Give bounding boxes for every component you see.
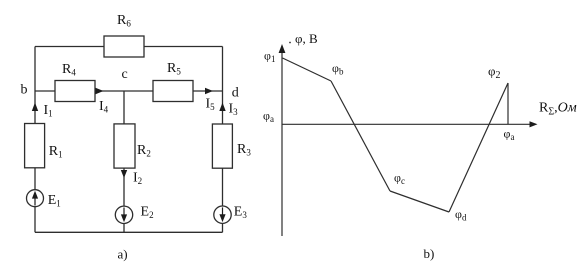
wire E1 to bottom rail	[34, 207, 36, 233]
svg-text:R4: R4	[62, 62, 76, 78]
source E1 circle	[27, 190, 44, 207]
svg-text:b: b	[21, 83, 28, 98]
resistor R3 body	[212, 124, 232, 168]
wire R5 to node d	[193, 90, 223, 92]
arrow I2 head (down, below R2)	[121, 170, 127, 178]
resistor R1 body	[25, 124, 45, 168]
svg-text:I4: I4	[99, 99, 109, 115]
svg-text:φa: φa	[263, 109, 274, 125]
wire right vertical top (top rail down to d)	[222, 47, 224, 92]
svg-text:R5: R5	[167, 61, 181, 77]
arrow I3 head (up, on right branch)	[219, 103, 225, 112]
svg-text:d: d	[232, 86, 239, 101]
svg-text:φb: φb	[332, 61, 344, 77]
svg-text:E1: E1	[48, 193, 61, 209]
svg-text:I1: I1	[44, 103, 53, 119]
svg-text:I3: I3	[229, 102, 239, 118]
wire R2 to E2	[123, 168, 125, 206]
wire R1 to E1	[34, 168, 36, 190]
wire node d down to R3	[222, 91, 224, 124]
svg-text:R1: R1	[49, 144, 63, 160]
wire E2 to bottom rail	[123, 224, 125, 233]
wire b to R4	[35, 90, 55, 92]
wire node c down to R2	[123, 91, 125, 124]
curve segment phid to phi2	[449, 83, 508, 212]
wire b down to R1	[34, 91, 36, 124]
svg-text:φ, B: φ, B	[295, 31, 318, 46]
svg-text:b): b)	[424, 246, 435, 261]
curve segment phic to phid	[390, 191, 449, 212]
wire E3 to bottom rail	[222, 223, 224, 232]
curve segment phi2 down to axis (phia)	[507, 83, 509, 124]
resistor R5 body	[153, 81, 193, 102]
svg-text:c: c	[122, 67, 128, 82]
source E3 arrow (down inside circle)	[219, 214, 225, 222]
svg-text:φd: φd	[455, 207, 467, 223]
horizontal axis arrowhead	[530, 121, 538, 127]
curve segment phib to phic	[331, 81, 390, 191]
potential diagram horizontal axis	[282, 123, 531, 125]
svg-text:R6: R6	[117, 13, 131, 29]
wire top rail left of R6	[35, 46, 104, 48]
svg-text:R3: R3	[237, 142, 251, 158]
svg-text:R2: R2	[137, 143, 151, 159]
svg-text:E2: E2	[141, 205, 154, 221]
wire left vertical top (b up to top rail)	[34, 47, 36, 92]
svg-text:a): a)	[118, 247, 128, 262]
source E1 arrow (up inside circle)	[32, 191, 38, 199]
potential diagram vertical axis	[281, 52, 283, 236]
wire top rail right of R6	[144, 46, 223, 48]
source E2 arrow (down inside circle)	[121, 214, 127, 222]
resistor R4 body	[55, 81, 95, 102]
svg-text:RΣ,Ом: RΣ,Ом	[539, 101, 577, 118]
wire R3 to E3	[222, 168, 224, 206]
arrow I1 head (up, on left branch)	[32, 103, 38, 112]
svg-text:E3: E3	[234, 205, 248, 221]
curve segment phi1 to phib	[283, 58, 332, 81]
vertical axis arrowhead	[279, 44, 286, 53]
svg-text:φc: φc	[394, 171, 405, 187]
wire R4 to node c	[95, 90, 124, 92]
wire node c to R5	[124, 90, 153, 92]
arrow I5 head (right, after R5)	[205, 88, 213, 94]
svg-text:φa: φa	[504, 127, 515, 143]
resistor R2 body	[114, 124, 135, 168]
svg-text:I2: I2	[133, 171, 142, 187]
small dot before phi label	[289, 42, 291, 44]
svg-text:φ2: φ2	[488, 64, 501, 82]
source E3 circle	[214, 206, 231, 223]
wire bottom rail	[35, 231, 223, 233]
resistor R6 body	[104, 36, 144, 57]
svg-text:φ1: φ1	[264, 49, 275, 65]
arrow I4 head (right, after R4)	[96, 88, 104, 94]
svg-text:I5: I5	[206, 97, 216, 113]
source E2 circle	[115, 206, 132, 223]
